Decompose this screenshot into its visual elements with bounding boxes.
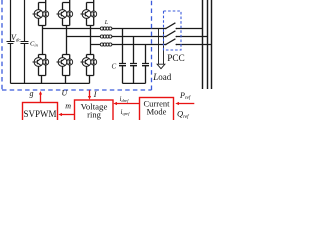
wire leg C lower bracket: [87, 55, 94, 84]
source Vdc plates: [7, 42, 15, 44]
grid bus bar 2: [207, 0, 209, 89]
wire leg C midpoint vertical: [90, 26, 92, 55]
capacitor Ca: [119, 29, 126, 84]
arrow P_ref: [175, 102, 194, 105]
wire phase line a: [43, 27, 203, 30]
wire capacitor star bar: [123, 82, 146, 84]
inductor coil phase a: [100, 27, 112, 30]
block Current Mode: [140, 98, 174, 122]
breaker S3: [165, 39, 177, 46]
diode D3: [67, 11, 73, 17]
arrow g: [39, 91, 42, 103]
diode D1: [43, 11, 49, 17]
breaker S1: [165, 23, 177, 30]
wire leg C upper bracket: [87, 0, 94, 83]
wire phase line c: [91, 43, 212, 46]
transistor T6: [57, 58, 67, 67]
diode D2: [91, 59, 97, 65]
wire leg A midpoint vertical: [42, 26, 44, 55]
svg-text:I: I: [93, 90, 97, 99]
wire DC rail left: [10, 0, 12, 83]
svg-text:Mode: Mode: [147, 107, 167, 117]
arrow m: [58, 113, 74, 116]
diode D4: [43, 59, 49, 65]
transistor T1: [33, 10, 43, 19]
wire leg B midpoint vertical: [66, 26, 68, 55]
transistor T3: [57, 10, 67, 19]
svg-text:Cin: Cin: [30, 41, 39, 48]
svg-text:L: L: [104, 20, 109, 26]
wire leg B upper bracket: [63, 0, 70, 83]
transistor T2: [81, 58, 91, 67]
svg-text:ring: ring: [87, 109, 101, 119]
grid bus bar 3: [211, 0, 213, 89]
capacitor Cc: [142, 45, 149, 84]
svg-text:m: m: [65, 102, 71, 111]
capacitor Cin plates: [21, 42, 29, 44]
transistor T5: [81, 10, 91, 19]
grid bus bar 1: [202, 0, 204, 89]
diode D5: [91, 11, 97, 17]
arrow i_dref: [113, 102, 139, 105]
arrow U I measurement: [88, 90, 91, 99]
wire leg A lower bracket: [39, 55, 46, 84]
svg-text:C: C: [112, 63, 117, 71]
capacitor Cb: [130, 37, 137, 84]
breaker S2: [165, 31, 177, 38]
wire leg B lower bracket: [63, 55, 70, 84]
transistor T4: [33, 58, 43, 67]
block Voltage ring: [75, 100, 114, 121]
block SVPWM: [23, 103, 58, 122]
inverter boundary dashed box: [2, 0, 152, 90]
wire phase line b: [67, 35, 208, 38]
svg-text:Load: Load: [152, 72, 172, 82]
wire DC rail 2: [24, 0, 26, 83]
wire leg A upper bracket: [39, 0, 46, 83]
svg-text:PCC: PCC: [167, 54, 185, 64]
PCC dashed box: [164, 11, 182, 50]
svg-text:SVPWM: SVPWM: [23, 109, 56, 119]
wire DC bottom rail: [11, 82, 90, 84]
svg-text:g: g: [30, 89, 34, 98]
diode D6: [67, 59, 73, 65]
inductor coil phase b: [100, 35, 112, 38]
load feeder arrow: [157, 29, 165, 69]
inductor coil phase c: [100, 43, 112, 46]
